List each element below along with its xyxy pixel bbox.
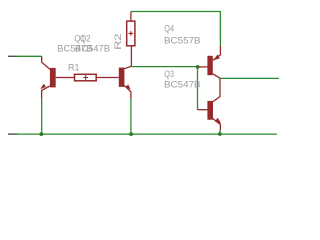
label Q4	[164, 22, 174, 33]
svg-text:BC557B: BC557B	[164, 34, 201, 45]
wire input net stub (dark pin) top-left	[8, 55, 18, 57]
transistor Q2 base bar	[119, 68, 125, 87]
resistor R2	[127, 21, 135, 46]
label BC547B value of Q3	[164, 79, 201, 90]
label R2 (rotated)	[112, 33, 123, 50]
junction node Q1 emitter on rail	[39, 132, 43, 136]
label BC547B value of Q1	[57, 43, 92, 54]
junction node Q2 emitter on rail	[129, 132, 133, 136]
wire input net to Q1 collector	[18, 55, 42, 57]
transistor Q3 base pin	[198, 109, 208, 111]
transistor Q1 collector pin	[42, 56, 50, 69]
transistor Q3 emitter pin with arrow	[213, 118, 221, 130]
transistor Q3 collector pin	[213, 78, 220, 101]
wire Q2 emitter to ground rail	[130, 99, 132, 134]
svg-text:Q3: Q3	[164, 68, 174, 79]
wire ground rail	[18, 133, 278, 135]
label Q2	[80, 33, 91, 44]
label BC557B value of Q4	[164, 34, 201, 45]
svg-text:Q4: Q4	[164, 22, 174, 33]
wire top rail R2 to Q4 emitter	[131, 12, 221, 47]
resistor R2 top pin	[130, 12, 132, 22]
transistor Q4 emitter pin with arrow (PNP)	[213, 46, 221, 60]
transistor Q2 collector pin	[124, 66, 131, 69]
transistor Q1 base bar	[50, 68, 56, 88]
transistor Q4 base pin	[198, 66, 208, 68]
wire base net down to Q3 base	[197, 67, 199, 110]
transistor Q2 emitter pin with arrow	[124, 84, 130, 98]
wire Q1 emitter to ground rail	[41, 99, 43, 134]
svg-text:BC547B: BC547B	[75, 43, 110, 54]
transistor Q3 base bar	[207, 101, 213, 120]
resistor R2 bottom pin	[130, 46, 132, 67]
label R1	[68, 62, 79, 73]
junction node Q3 emitter on rail	[218, 132, 222, 136]
label Q1	[74, 33, 85, 44]
svg-text:R1: R1	[68, 62, 79, 73]
wire base net Q2 collector to bases	[131, 66, 197, 68]
ground rail pin stub (dark) bottom-left	[8, 133, 18, 135]
junction node at bases	[196, 65, 200, 69]
transistor Q4 collector pin	[213, 74, 220, 79]
transistor Q1 emitter pin with arrow	[40, 84, 50, 99]
wire R1 right pin to Q2 base	[96, 77, 119, 79]
wire Q3 emitter to ground rail	[219, 130, 221, 134]
resistor R1	[75, 74, 97, 81]
svg-text:R2: R2	[112, 33, 123, 50]
label BC547B value of Q2	[75, 43, 110, 54]
transistor Q4 base bar	[207, 56, 212, 75]
label Q3	[164, 68, 174, 79]
transistor Q1 base pin	[56, 77, 75, 79]
wire output net to right	[220, 77, 279, 79]
svg-text:BC547B: BC547B	[164, 79, 201, 90]
